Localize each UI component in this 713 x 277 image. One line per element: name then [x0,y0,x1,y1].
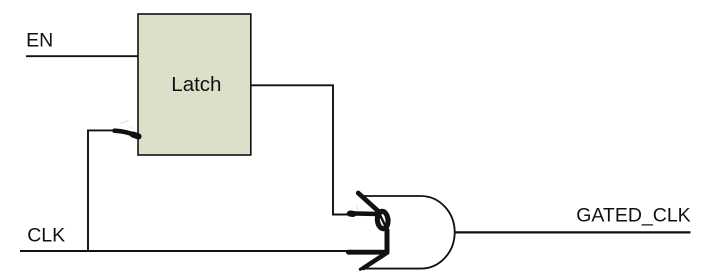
wire EN to latch [26,55,138,57]
latch U1 body [138,14,251,155]
pen stroke: diagonal crossing loop interior [379,213,385,226]
pen stroke: thick top input wire [349,211,379,216]
wire CLK to AND gate bottom input [20,250,368,252]
svg-text:CLK: CLK [27,225,65,247]
pen stroke: loop at top input [377,211,389,229]
pen stroke: check mark at gate bottom left [364,253,387,268]
pen stroke: check mark tip [360,267,364,270]
pen stroke: diagonal into loop [358,193,380,213]
wire latch output to AND gate top input [251,85,352,214]
wire AND gate output [455,231,691,233]
pen stroke: thick bottom input wire [348,250,387,255]
pencil smudge near latch clock pin [121,121,358,211]
svg-text:GATED_CLK: GATED_CLK [576,205,691,227]
pen stroke: blob at start of top input [350,211,353,217]
AND gate U2 outline [359,196,455,269]
pen stroke: latch clock input overdraw [115,131,139,137]
pen stroke: vertical along gate left edge [385,230,390,253]
wire CLK branch up to latch clock input [88,130,122,251]
svg-text:Latch: Latch [171,73,221,96]
svg-text:EN: EN [26,30,53,52]
